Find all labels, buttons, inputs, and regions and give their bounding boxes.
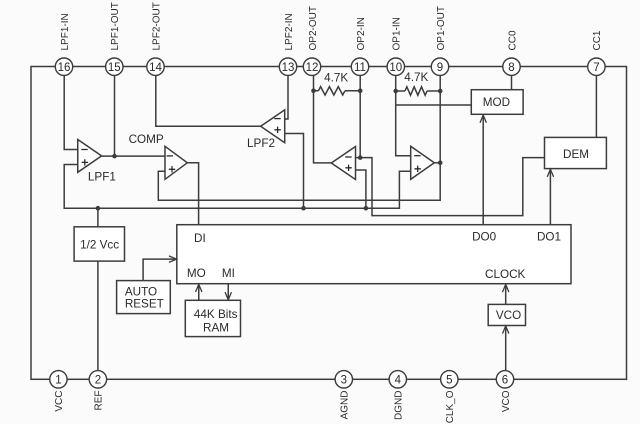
svg-text:4.7K: 4.7K	[404, 71, 428, 84]
svg-text:9: 9	[437, 62, 443, 74]
svg-text:LPF2: LPF2	[247, 137, 275, 150]
svg-text:OP2-IN: OP2-IN	[356, 17, 367, 50]
junction rail LPF2 plus	[301, 206, 306, 211]
svg-text:16: 16	[58, 62, 71, 74]
svg-text:4: 4	[395, 375, 402, 387]
wire rail to 1/2 Vcc box	[97, 208, 99, 227]
wire MI logic block to RAM	[227, 284, 229, 301]
svg-text:10: 10	[389, 62, 402, 74]
pin 10 circle	[387, 58, 404, 75]
wire pin6 to VCO	[505, 326, 507, 371]
svg-text:DGND: DGND	[394, 391, 405, 420]
block DEM	[545, 137, 607, 168]
wire OP2 non-inverting input to rail	[356, 170, 366, 208]
svg-text:1/2 Vcc: 1/2 Vcc	[80, 239, 119, 252]
resistor R2 zigzag	[405, 87, 427, 95]
wire COMP output to DI	[187, 163, 198, 225]
wire COMP non-inverting input to OP1 output	[158, 163, 440, 201]
svg-text:LPF1-IN: LPF1-IN	[60, 13, 71, 50]
svg-text:LPF2-IN: LPF2-IN	[284, 13, 295, 50]
pin 12 circle	[303, 58, 320, 75]
block MOD	[471, 90, 523, 115]
svg-text:2: 2	[95, 375, 101, 387]
wire pin11 to OP2 inverting node	[359, 75, 361, 157]
wire LPF1 non-inverting input to 1/2 Vcc rail and rail to OP1 non-inverting input	[64, 165, 411, 209]
wire AUTO RESET to logic block	[143, 259, 177, 281]
plus sign OP2	[345, 165, 351, 171]
wire MO RAM to logic block	[198, 284, 200, 301]
svg-text:14: 14	[149, 62, 162, 74]
arrowhead MI into RAM	[225, 293, 231, 300]
pin 2 circle	[89, 371, 106, 388]
pin 11 circle	[351, 58, 368, 75]
svg-text:OP1-OUT: OP1-OUT	[436, 6, 447, 50]
plus sign LPF2	[274, 127, 280, 133]
wire OP1 output to node	[434, 162, 440, 164]
wire 1/2 Vcc box to pin2	[97, 261, 99, 371]
block logic CLOCK	[177, 225, 571, 284]
pin 4 circle	[389, 371, 406, 388]
svg-text:12: 12	[306, 62, 319, 74]
wire DO0 to MOD	[482, 114, 484, 224]
junction R1 right	[358, 89, 363, 94]
svg-text:6: 6	[502, 375, 508, 387]
wire pin10 to OP1 inverting input	[396, 75, 411, 155]
svg-text:LPF1-OUT: LPF1-OUT	[110, 2, 121, 50]
svg-text:1: 1	[55, 375, 61, 387]
svg-text:CLOCK: CLOCK	[485, 268, 525, 281]
svg-text:OP2-OUT: OP2-OUT	[308, 6, 319, 50]
pin 9 circle	[431, 58, 448, 75]
minus sign OP2	[345, 156, 351, 158]
wire pin15 to LPF1 output	[114, 75, 116, 156]
arrowhead AUTO RESET into logic block	[169, 256, 176, 262]
minus sign LPF1	[81, 149, 87, 151]
svg-text:8: 8	[508, 62, 514, 74]
svg-text:44K Bits: 44K Bits	[194, 308, 238, 321]
wire OP2 inverting input to DEM input	[356, 158, 545, 216]
op-amp OP1	[411, 146, 435, 179]
svg-text:CLK_O: CLK_O	[445, 390, 456, 423]
svg-text:AGND: AGND	[340, 391, 351, 420]
svg-text:CC1: CC1	[592, 30, 603, 50]
pin 6 circle	[496, 371, 513, 388]
wire LPF1 output to COMP inverting input	[102, 155, 165, 157]
wire LPF2 non-inverting input to rail	[285, 134, 304, 209]
svg-text:MI: MI	[222, 267, 235, 280]
block 44K Bits RAM	[185, 300, 240, 336]
IC outline	[31, 67, 627, 380]
op-amp LPF2	[261, 110, 285, 143]
svg-text:RAM: RAM	[203, 322, 229, 335]
plus sign COMP	[169, 166, 175, 172]
svg-text:CC0: CC0	[507, 30, 518, 50]
svg-text:RESET: RESET	[125, 297, 164, 310]
plus sign LPF1	[82, 159, 88, 165]
svg-text:LPF2-OUT: LPF2-OUT	[151, 2, 162, 50]
svg-text:11: 11	[354, 62, 366, 74]
junction R2 right	[438, 89, 443, 94]
wire LPF2 inverting input to pin13	[285, 75, 288, 119]
svg-text:3: 3	[341, 375, 347, 387]
svg-text:MO: MO	[187, 267, 206, 280]
svg-text:VCO: VCO	[496, 309, 521, 322]
op-amp COMP	[165, 146, 187, 179]
svg-text:DO1: DO1	[537, 231, 561, 244]
junction rail OP2 plus	[364, 206, 369, 211]
wire OP1-IN node to MOD input	[396, 104, 472, 106]
minus sign LPF2	[274, 118, 280, 120]
wire pin12 to OP2 output	[314, 75, 332, 162]
wire pin8 to MOD	[511, 75, 513, 89]
arrowhead MO into logic block	[196, 284, 202, 291]
wire pin16 to LPF1 inverting input	[64, 75, 78, 149]
plus sign OP1	[415, 166, 421, 172]
junction LPF1 output pin15	[112, 154, 117, 159]
op-amp OP2	[331, 147, 355, 180]
svg-text:VCO: VCO	[501, 390, 512, 412]
pin 14 circle	[147, 58, 164, 75]
pin 3 circle	[335, 371, 352, 388]
pin 16 circle	[55, 58, 72, 75]
junction OP2 minus pin11	[358, 155, 363, 160]
junction rail 1/2 Vcc	[96, 206, 101, 211]
pin 1 circle	[50, 371, 67, 388]
wire VCO to CLOCK	[505, 284, 507, 305]
arrowhead DO1 into DEM	[547, 169, 553, 176]
svg-text:LPF1: LPF1	[88, 171, 116, 184]
svg-text:15: 15	[108, 62, 121, 74]
svg-text:4.7K: 4.7K	[324, 72, 348, 85]
resistor R1 zigzag	[318, 87, 345, 95]
arrowhead DO0 into MOD	[480, 115, 486, 122]
svg-text:7: 7	[593, 62, 599, 74]
svg-text:DEM: DEM	[563, 148, 589, 161]
wire pin7 to DEM	[595, 75, 597, 137]
block AUTO RESET	[117, 281, 171, 314]
resistor R2 4.7K leads	[396, 90, 441, 92]
pin 13 circle	[279, 58, 296, 75]
junction OP1 output pin9	[438, 161, 443, 166]
svg-text:COMP: COMP	[129, 133, 164, 146]
pin 5 circle	[441, 371, 458, 388]
junction R2 left	[393, 89, 398, 94]
svg-text:DI: DI	[194, 232, 206, 245]
svg-text:5: 5	[446, 375, 452, 387]
arrowhead VCO to CLOCK	[503, 284, 509, 291]
wire pin14 to LPF2 output	[156, 75, 261, 126]
block VCO	[488, 304, 525, 325]
arrowhead pin6 into VCO	[503, 326, 509, 333]
block 1/2 Vcc	[74, 227, 124, 261]
minus sign OP1	[414, 155, 420, 157]
pin 8 circle	[503, 58, 520, 75]
pin 7 circle	[588, 58, 605, 75]
resistor R1 4.7K leads	[314, 90, 361, 92]
svg-text:VCC: VCC	[54, 391, 65, 412]
svg-text:DO0: DO0	[472, 231, 497, 244]
wire pin9 to OP1 output node	[439, 75, 441, 162]
svg-text:REF: REF	[94, 391, 105, 411]
svg-text:OP1-IN: OP1-IN	[392, 17, 403, 50]
minus sign COMP	[167, 155, 173, 157]
pin 15 circle	[106, 58, 123, 75]
svg-text:13: 13	[282, 62, 295, 74]
op-amp LPF1	[78, 140, 102, 173]
svg-text:MOD: MOD	[483, 96, 510, 109]
wire DO1 to DEM	[549, 169, 551, 225]
junction R1 left	[311, 89, 316, 94]
